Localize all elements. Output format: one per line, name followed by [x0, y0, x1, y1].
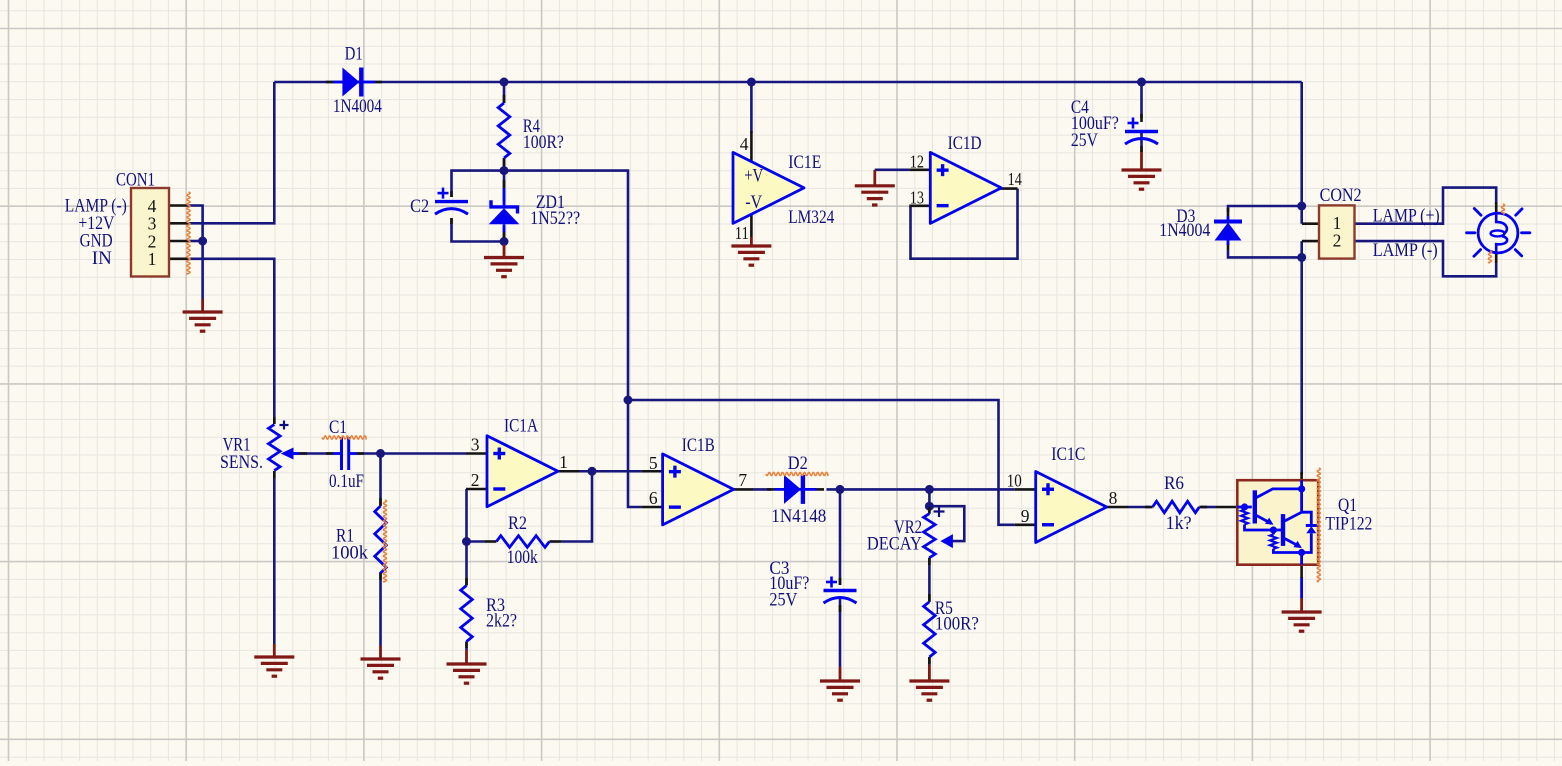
wire VR2 to R5	[928, 558, 931, 602]
node VR2 wiper junction	[925, 502, 934, 511]
wire rail right drop to CON2 pin1	[1300, 82, 1303, 224]
svg-text:IC1A: IC1A	[504, 417, 539, 437]
ground R3	[465, 650, 468, 664]
error squiggle C1	[322, 436, 366, 439]
pin stub C1 left	[326, 452, 333, 455]
pin stub IC1B pin5	[642, 470, 663, 473]
svg-text:2: 2	[471, 470, 480, 490]
svg-text:5: 5	[649, 453, 658, 473]
pin stub ZD1 bottom	[503, 231, 506, 238]
op-amp IC1E (power)	[733, 152, 804, 223]
wire ref net to IC1B pin6	[504, 171, 642, 507]
node R4-ZD1 junction	[500, 166, 509, 175]
pin stub ZD1 top	[503, 180, 506, 188]
wire VR2 wiper loop	[929, 506, 964, 541]
svg-text:1N4004: 1N4004	[333, 97, 382, 117]
wire CON1 pin3 to rail riser	[188, 82, 274, 223]
pin stub VR1 wiper	[299, 452, 307, 455]
wire IC1A out to IC1B pin5	[580, 470, 642, 473]
node rail-IC1E junction	[747, 78, 756, 87]
ground Q1	[1300, 598, 1303, 612]
node rail-C4 junction	[1137, 78, 1146, 87]
ground IC1E pin11	[750, 237, 753, 246]
node D2-C3 junction	[836, 485, 845, 494]
wire R6 to Q1 base	[1201, 506, 1216, 509]
lamp LP1	[1478, 213, 1518, 253]
wire R4 bottom lead	[503, 158, 506, 171]
pin stub CON1 pin2	[169, 240, 188, 243]
wire R4 top lead	[503, 82, 506, 103]
pin stub Q1 emitter	[1300, 565, 1303, 578]
svg-text:6: 6	[649, 488, 658, 508]
svg-text:LAMP (-): LAMP (-)	[1373, 241, 1438, 261]
resistor R3	[461, 586, 473, 642]
resistor R1	[375, 506, 387, 573]
ground VR1	[273, 644, 276, 657]
svg-text:12: 12	[910, 152, 924, 172]
pin stub R1 top	[379, 498, 382, 506]
wire C4 from rail	[1140, 82, 1143, 118]
svg-text:R2: R2	[508, 514, 527, 534]
svg-text:D2: D2	[788, 454, 808, 474]
svg-text:1: 1	[148, 249, 157, 269]
ground R1	[379, 646, 382, 659]
svg-text:14: 14	[1008, 169, 1022, 189]
svg-text:IC1E: IC1E	[788, 153, 821, 173]
potentiometer VR2	[924, 514, 936, 558]
node D3 bottom junction	[1297, 253, 1306, 262]
error squiggle lamp top	[1501, 204, 1504, 214]
resistor R4	[498, 103, 510, 158]
capacitor C3	[824, 589, 857, 592]
pin stub VR1 top	[273, 417, 276, 424]
wire D3 top to net	[1228, 206, 1302, 212]
svg-text:13: 13	[910, 188, 924, 208]
svg-text:CON2: CON2	[1320, 186, 1362, 206]
svg-text:25V: 25V	[1071, 131, 1099, 151]
ground IC1D pin12	[873, 170, 876, 186]
svg-text:LM324: LM324	[788, 208, 834, 228]
pin stub Q1 base	[1216, 506, 1237, 509]
pin stub R5 top	[928, 594, 931, 602]
wire Q1 emitter to ground	[1300, 577, 1303, 598]
error squiggle lamp bottom	[1488, 251, 1491, 263]
wire IC1D pin12 to ground	[875, 169, 910, 172]
svg-text:D1: D1	[345, 45, 363, 65]
wire IC1D feedback loop	[911, 189, 1018, 259]
wire junction to C2 top	[452, 171, 505, 197]
wire CON1 pin4 down to GND	[188, 206, 203, 300]
pin stub D1 left	[326, 81, 333, 84]
wire R1 bottom to ground	[379, 573, 382, 646]
pin stub R1 bottom	[379, 572, 382, 580]
wire R3 top lead	[465, 542, 468, 586]
pin stub D1 right	[375, 81, 382, 84]
zener diode ZD1	[503, 188, 506, 207]
svg-text:10: 10	[1007, 471, 1022, 491]
svg-text:100k: 100k	[507, 548, 539, 568]
svg-text:0.1uF: 0.1uF	[329, 472, 364, 492]
svg-text:4: 4	[740, 134, 749, 154]
capacitor C2	[435, 200, 468, 203]
resistor R6	[1153, 501, 1200, 513]
svg-text:100k: 100k	[331, 544, 369, 564]
pin stub VR2 bottom	[928, 558, 931, 565]
pin stub VR2 top	[928, 507, 931, 514]
resistor R5	[924, 602, 936, 657]
wire LAMP(+) loop	[1355, 188, 1497, 224]
diode D1	[333, 81, 375, 84]
pin stub R4 bottom	[503, 158, 506, 166]
pin stub R2 right	[549, 540, 561, 543]
svg-text:LAMP (+): LAMP (+)	[1373, 207, 1440, 227]
wire R5 bottom lead	[928, 657, 931, 665]
svg-text:C2: C2	[410, 197, 429, 217]
pin stub VR1 bottom	[273, 471, 276, 478]
pin stub C4 top	[1140, 114, 1143, 122]
pin stub lamp top	[1495, 202, 1498, 212]
svg-text:IC1C: IC1C	[1051, 445, 1085, 465]
pin stub lamp bottom	[1495, 254, 1498, 264]
node ref net T-junction	[624, 396, 633, 405]
error squiggle R1	[383, 500, 386, 582]
pin stub C2 bottom	[450, 218, 453, 224]
wire CON2 pin2 drop to Q1 collector	[1300, 241, 1303, 475]
svg-text:1N4148: 1N4148	[771, 507, 826, 527]
svg-text:1k?: 1k?	[1166, 514, 1192, 534]
error squiggle D2	[766, 472, 828, 475]
ground CON1	[201, 299, 204, 312]
wire CON1 pin1 IN to VR1	[188, 259, 274, 424]
svg-text:3: 3	[471, 434, 480, 454]
svg-text:100R?: 100R?	[523, 133, 564, 153]
pin stub R2 left	[484, 540, 496, 543]
ground C4	[1140, 150, 1143, 170]
svg-text:IC1B: IC1B	[682, 436, 715, 456]
op-amp IC1B	[663, 454, 734, 525]
error squiggle Q1	[1317, 468, 1320, 582]
node CON1 GND junction	[198, 237, 207, 246]
svg-text:IC1D: IC1D	[948, 134, 982, 154]
wire IC1A pin2 net	[467, 489, 485, 542]
pin stub C2 top	[450, 191, 453, 197]
wire IC1B out to D2	[753, 488, 772, 491]
svg-text:CON1: CON1	[116, 171, 155, 191]
wire C1 to IC1A pin3	[357, 452, 466, 455]
capacitor C4	[1125, 130, 1158, 133]
wire C3 bottom to ground	[839, 599, 842, 667]
pin stub CON1 pin3	[169, 222, 188, 225]
pin stub CON1 pin4	[169, 204, 188, 207]
wire ZD1 top lead	[503, 171, 506, 202]
wire LAMP(-) loop	[1355, 241, 1497, 276]
pin stub IC1C pin8	[1107, 506, 1129, 509]
svg-text:2k2?: 2k2?	[486, 611, 517, 631]
svg-text:IN: IN	[92, 249, 112, 269]
wire C3 top lead	[839, 489, 842, 585]
pin stub IC1B pin7	[734, 488, 753, 491]
pin stub C3 top	[839, 578, 842, 585]
svg-text:Q1: Q1	[1338, 496, 1357, 516]
svg-text:1N4004: 1N4004	[1159, 221, 1210, 241]
op-amp IC1D	[930, 152, 1001, 223]
op-amp IC1C	[1036, 472, 1107, 543]
svg-text:100R?: 100R?	[935, 614, 979, 634]
wire D3 bottom to net	[1228, 250, 1302, 257]
error squiggle CON1	[187, 192, 190, 274]
wire D2 to IC1C pin10	[827, 488, 1015, 491]
wire ref net to IC1C pin9	[628, 400, 1015, 525]
transistor Q1 (TIP122 darlington)	[1237, 480, 1318, 565]
wire C4 lead to arc	[1140, 132, 1143, 151]
svg-text:TIP122: TIP122	[1325, 515, 1372, 535]
wire VR1 bottom to ground	[273, 471, 276, 644]
pin stub R5 bottom	[928, 657, 931, 664]
pin stub R3 bottom	[465, 642, 468, 649]
pin stub D2 left	[767, 488, 775, 491]
pin stub IC1A pin3	[466, 452, 487, 455]
pin stub IC1C pin10	[1015, 488, 1036, 491]
wire C2 bottom	[452, 218, 505, 242]
node pin2-R2-R3 junction	[462, 537, 471, 546]
svg-text:9: 9	[1021, 506, 1030, 526]
wire R3 bottom lead	[465, 642, 468, 651]
svg-text:SENS.: SENS.	[220, 453, 263, 473]
node IC1A out junction	[588, 467, 597, 476]
node rail-R4 junction	[500, 78, 509, 87]
node C1-R1 junction	[376, 449, 385, 458]
op-amp IC1A	[487, 436, 558, 507]
svg-text:11: 11	[735, 223, 749, 243]
pin stub CON1 pin1	[169, 257, 188, 260]
node D3 top junction	[1297, 202, 1306, 211]
svg-text:+V: +V	[744, 167, 764, 187]
connector CON2 box	[1319, 205, 1355, 258]
wire ZD1 bottom lead	[503, 227, 506, 242]
capacitor C1	[340, 437, 343, 470]
wire CON1 pin2	[188, 240, 203, 243]
pin stub IC1E pin11	[750, 215, 753, 238]
pin stub IC1E pin4	[750, 131, 753, 161]
pin stub IC1C pin9	[1015, 523, 1036, 526]
node D2-VR2 junction	[925, 485, 934, 494]
pin stub R3 top	[465, 578, 468, 586]
ground C3	[839, 667, 842, 681]
pin stub IC1D pin12	[909, 169, 930, 172]
pin stub R6 left	[1145, 506, 1153, 509]
pin stub IC1D pin13	[909, 205, 930, 208]
wire IC1E pin4 from rail	[750, 82, 753, 133]
svg-text:1: 1	[559, 452, 568, 472]
pin stub D3 bottom	[1227, 243, 1230, 250]
pin stub D3 top	[1227, 208, 1230, 216]
pin stub IC1A pin2	[466, 488, 487, 491]
resistor R2	[496, 536, 549, 548]
svg-text:R6: R6	[1164, 474, 1184, 494]
svg-text:1N52??: 1N52??	[530, 209, 580, 229]
pin stub CON2 pin2	[1302, 240, 1319, 243]
svg-text:7: 7	[738, 470, 747, 490]
potentiometer VR1	[269, 425, 281, 471]
wire R1 top lead	[379, 454, 382, 506]
svg-text:2: 2	[1333, 231, 1342, 251]
pin stub Q1 collector	[1300, 472, 1303, 480]
wire +12V top rail	[274, 81, 1301, 84]
svg-text:8: 8	[1109, 488, 1118, 508]
pin stub CON2 pin1	[1302, 222, 1319, 225]
svg-text:25V: 25V	[769, 591, 798, 611]
pin stub IC1B pin6	[642, 506, 663, 509]
node ZD1 bottom junction	[500, 237, 509, 246]
svg-text:DECAY: DECAY	[867, 535, 922, 555]
wire feedback to R2	[561, 471, 592, 541]
pin stub IC1D pin14	[999, 187, 1018, 190]
ground ZD1/C2	[503, 245, 506, 258]
pin stub R6 right	[1199, 506, 1207, 509]
wire VR1 wiper to C1	[293, 452, 333, 455]
svg-text:C1: C1	[329, 418, 347, 438]
pin stub C4 bottom	[1140, 146, 1143, 152]
diode D2	[775, 488, 817, 491]
pin stub C1 right	[357, 452, 364, 455]
pin stub C3 bottom	[839, 605, 842, 612]
connector CON1 box	[131, 188, 169, 277]
diode D3	[1227, 216, 1230, 223]
ground R5	[928, 665, 931, 682]
pin stub IC1A pin1	[558, 470, 580, 473]
wire VR2 top lead	[928, 489, 931, 513]
pin stub R4 top	[503, 95, 506, 103]
wire IC1C out to R6	[1129, 506, 1151, 509]
pin stub D2 right	[817, 488, 825, 491]
svg-text:-V: -V	[745, 193, 763, 213]
